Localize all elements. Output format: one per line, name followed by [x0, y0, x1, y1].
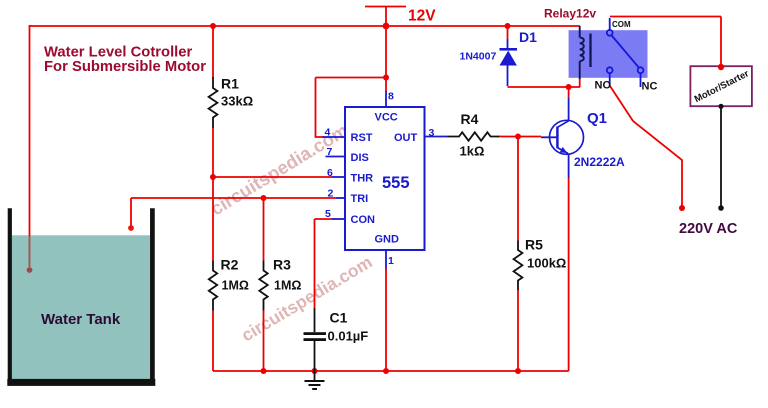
svg-text:R4: R4	[461, 111, 479, 127]
svg-text:OUT: OUT	[394, 132, 418, 144]
svg-text:2N2222A: 2N2222A	[574, 155, 625, 169]
svg-text:COM: COM	[612, 20, 631, 29]
svg-text:4: 4	[325, 127, 331, 139]
svg-text:NO: NO	[595, 80, 612, 92]
svg-text:GND: GND	[375, 234, 400, 246]
svg-text:7: 7	[327, 146, 333, 158]
svg-text:3: 3	[429, 127, 435, 139]
svg-text:1: 1	[388, 255, 394, 267]
svg-text:D1: D1	[519, 29, 537, 45]
svg-text:1N4007: 1N4007	[460, 51, 497, 63]
svg-text:R2: R2	[221, 257, 239, 273]
svg-text:VCC: VCC	[375, 112, 398, 124]
svg-text:1MΩ: 1MΩ	[274, 279, 301, 293]
svg-text:Water Tank: Water Tank	[41, 311, 121, 328]
svg-text:555: 555	[382, 174, 410, 192]
svg-text:C1: C1	[330, 310, 348, 326]
svg-text:RST: RST	[351, 132, 373, 144]
svg-text:100kΩ: 100kΩ	[527, 256, 566, 271]
svg-text:5: 5	[325, 208, 331, 220]
svg-text:R5: R5	[525, 237, 543, 253]
svg-text:THR: THR	[351, 173, 374, 185]
svg-text:0.01µF: 0.01µF	[328, 329, 369, 344]
svg-text:Relay12v: Relay12v	[544, 7, 596, 21]
svg-text:6: 6	[327, 167, 333, 179]
svg-text:CON: CON	[351, 214, 376, 226]
svg-text:R1: R1	[221, 76, 239, 92]
svg-text:1MΩ: 1MΩ	[222, 279, 249, 293]
svg-text:2: 2	[328, 188, 334, 200]
svg-text:12V: 12V	[408, 8, 436, 25]
svg-text:8: 8	[388, 91, 394, 103]
svg-text:For Submersible Motor: For Submersible Motor	[44, 59, 206, 75]
svg-text:33kΩ: 33kΩ	[221, 94, 253, 109]
svg-text:DIS: DIS	[351, 152, 369, 164]
svg-text:R3: R3	[273, 257, 291, 273]
svg-text:TRI: TRI	[351, 193, 369, 205]
svg-text:220V AC: 220V AC	[679, 221, 738, 237]
svg-text:Q1: Q1	[587, 110, 607, 127]
svg-text:NC: NC	[642, 81, 658, 93]
svg-text:1kΩ: 1kΩ	[460, 144, 485, 159]
